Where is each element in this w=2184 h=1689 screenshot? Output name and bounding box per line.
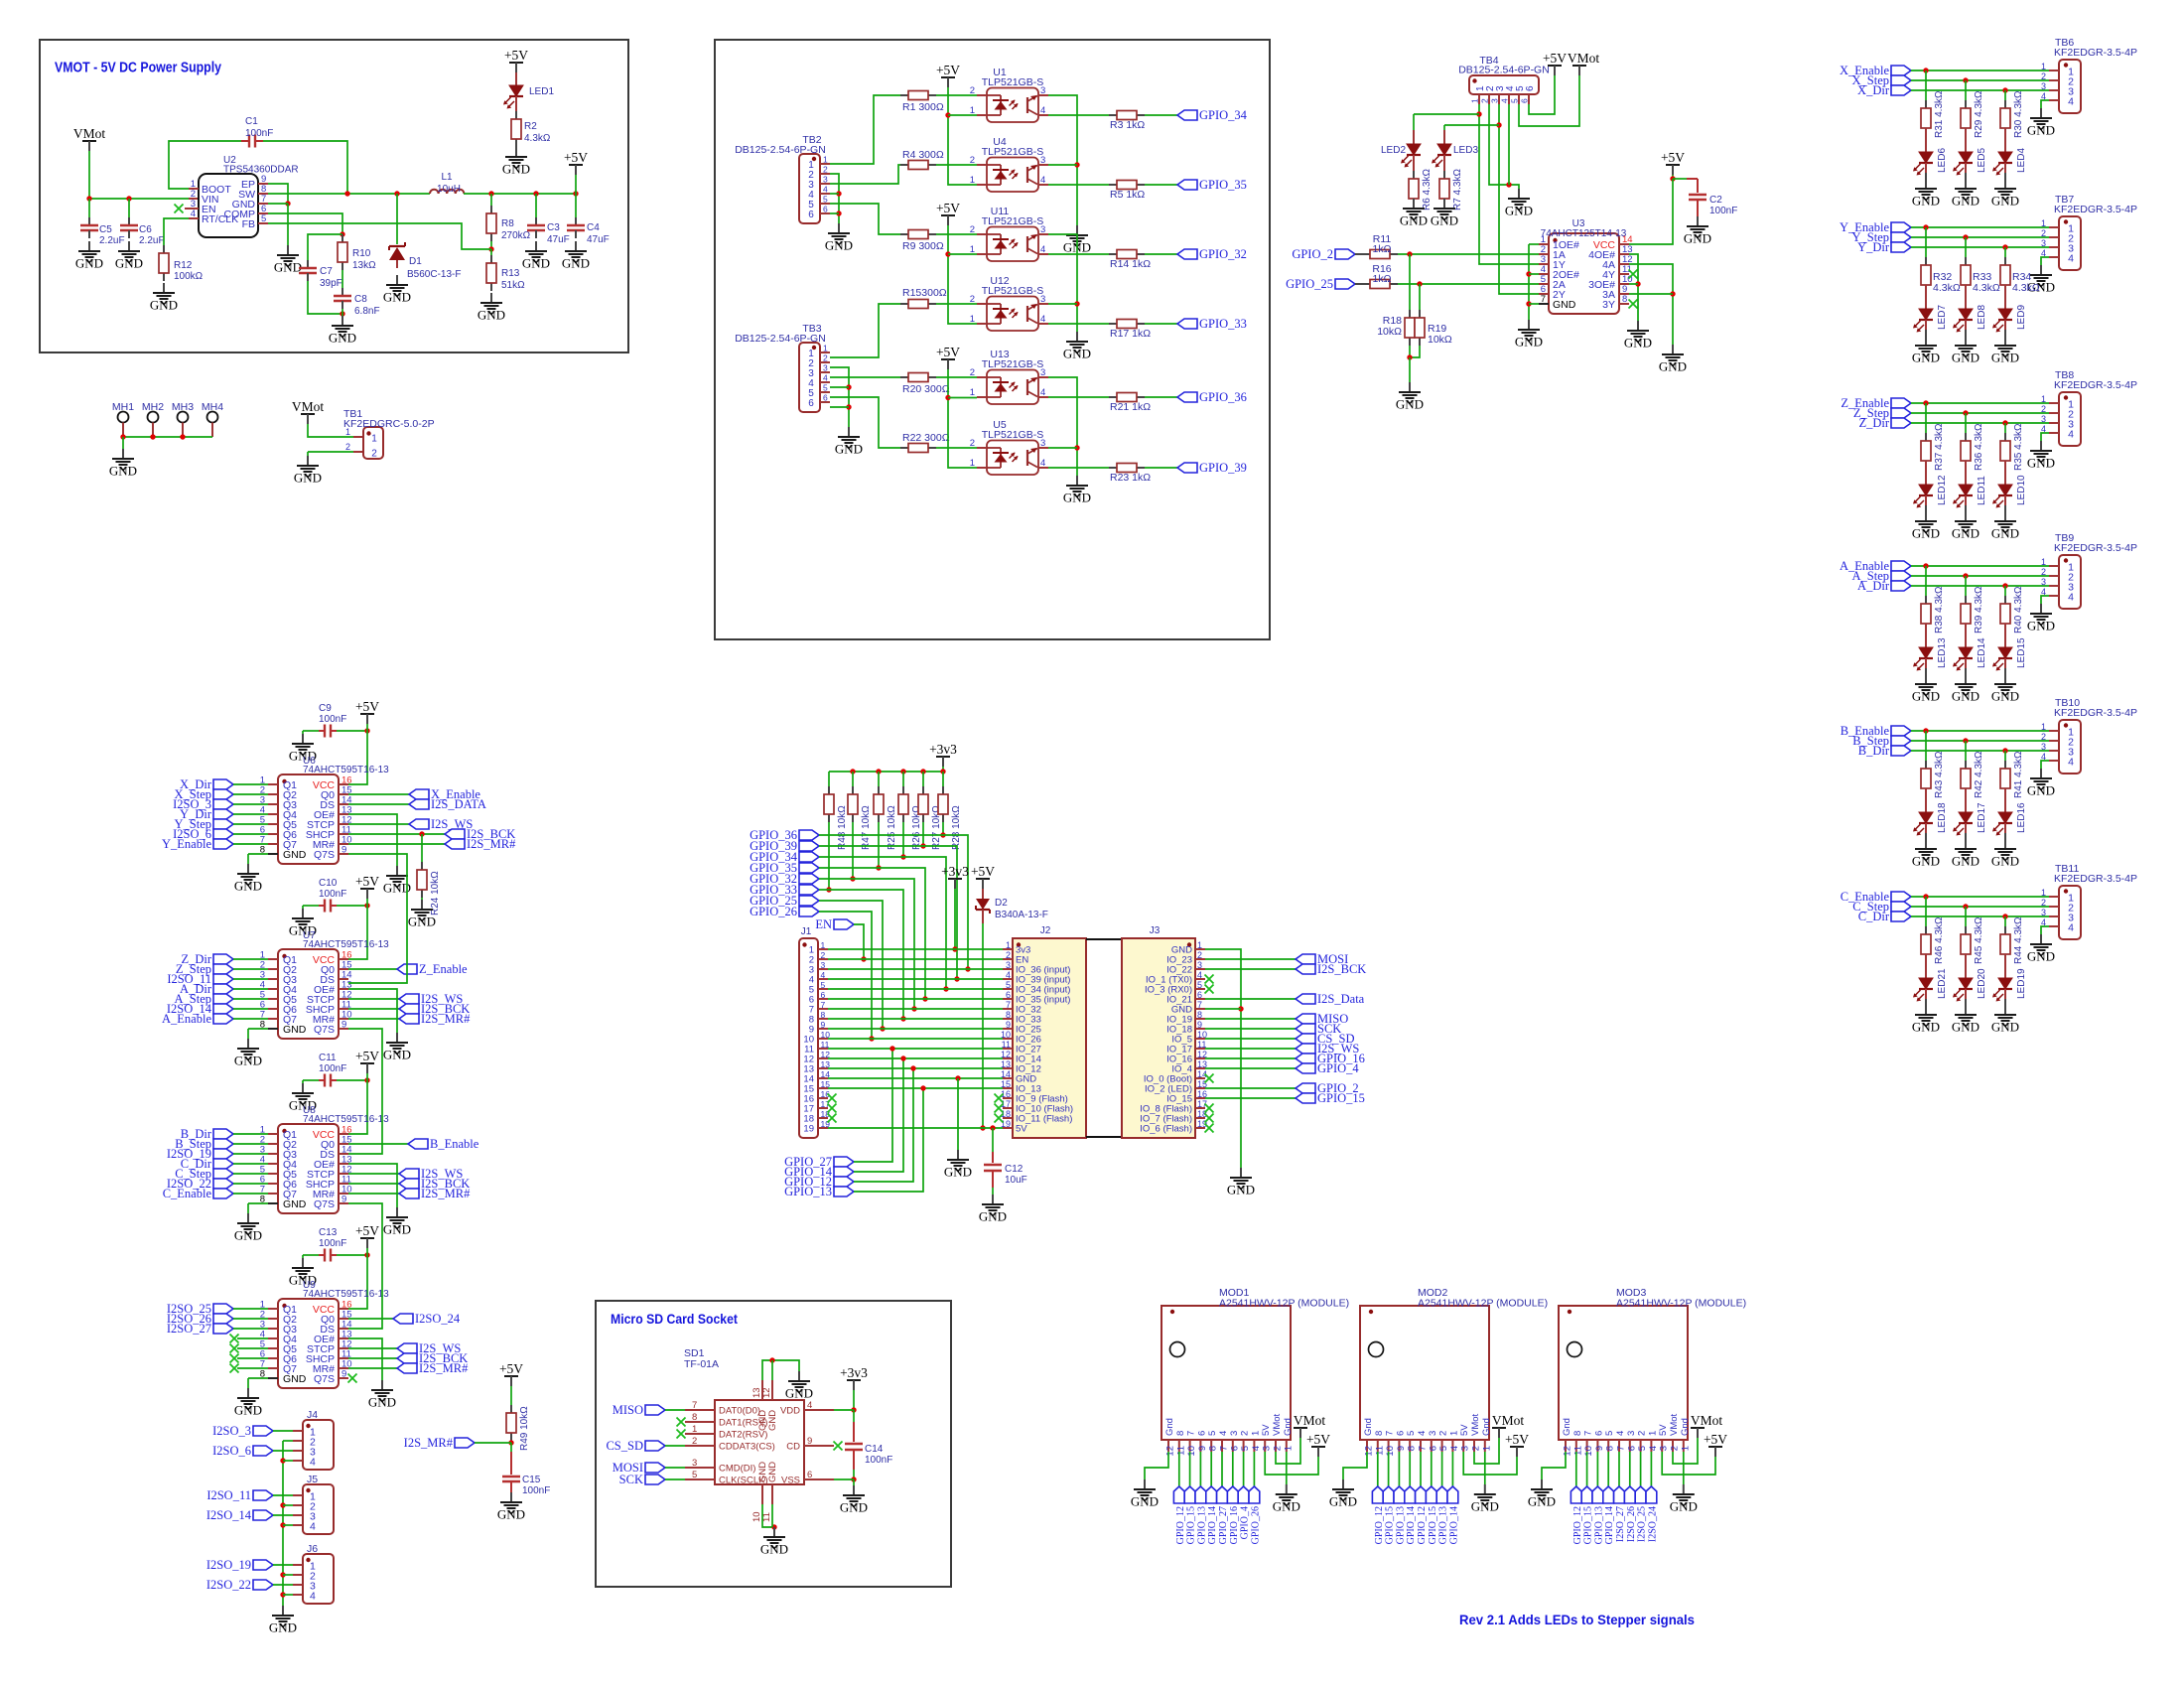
pin 14 VCC of U3 <box>1593 234 1633 251</box>
wire GPIO_15 to flag <box>1586 1452 1588 1486</box>
svg-text:LED5: LED5 <box>1977 148 1987 173</box>
net flag CS_SD <box>1296 1032 1355 1046</box>
svg-text:C6: C6 <box>139 224 152 235</box>
wire C8 to ground <box>341 309 343 316</box>
ground (LED10) <box>1991 511 2019 541</box>
junction <box>943 986 948 991</box>
pin 3 of TB11 <box>2041 908 2074 924</box>
ground (module row14) <box>944 1150 972 1180</box>
net flag GPIO_32 <box>1177 247 1247 261</box>
svg-text:GND: GND <box>1952 854 1979 869</box>
junction <box>952 946 957 951</box>
junction <box>488 246 493 251</box>
pin 9 CD of SD1 <box>786 1436 834 1453</box>
svg-text:3: 3 <box>1659 1446 1670 1451</box>
wire C13 right <box>337 1254 367 1256</box>
wire TB3.1 to R15 <box>830 304 900 357</box>
wire I2SO_26 to flag <box>1629 1452 1631 1486</box>
pin 3 of TB7 <box>2041 238 2074 255</box>
pin 10 3OE# of U3 <box>1588 274 1632 291</box>
svg-text:11: 11 <box>1175 1446 1186 1456</box>
svg-text:TLP521GB-S: TLP521GB-S <box>982 285 1043 297</box>
wire GPIO_14 to flag <box>1451 1452 1453 1486</box>
LED LED6 <box>1913 152 1933 176</box>
svg-text:10: 10 <box>1186 1446 1197 1457</box>
wire rail to R8 <box>490 194 492 206</box>
ground (U8 OE#) <box>383 1207 411 1237</box>
pin 4 of TB4 <box>1500 85 1517 104</box>
LED LED1 <box>503 85 523 109</box>
wire I2S_MR# to node <box>475 1442 511 1444</box>
svg-text:GPIO_25: GPIO_25 <box>1286 277 1333 291</box>
net flag C_Enable <box>1841 890 1911 904</box>
svg-text:GPIO_12: GPIO_12 <box>1417 1506 1428 1544</box>
no-connect X on J3 row <box>1205 1124 1214 1133</box>
junction <box>508 1440 513 1445</box>
pin lead LED11 cathode <box>1965 495 1967 505</box>
ground (C8) <box>329 316 356 346</box>
svg-text:KF2EDGR-3.5-4P: KF2EDGR-3.5-4P <box>2054 542 2137 554</box>
pin 6 of TB4 <box>1520 85 1537 104</box>
svg-text:51kΩ: 51kΩ <box>501 280 525 291</box>
wire I2SO_11 <box>273 1494 293 1496</box>
net flag GPIO_32 <box>750 872 819 886</box>
pin 13 OE# of U8 <box>314 1155 352 1172</box>
svg-text:3: 3 <box>2041 908 2046 917</box>
svg-text:GPIO_14: GPIO_14 <box>1448 1506 1459 1544</box>
svg-text:R5 1kΩ: R5 1kΩ <box>1110 189 1145 201</box>
wire Y_Step <box>1911 236 2049 238</box>
pin 14 DS of U8 <box>320 1145 351 1162</box>
capacitor C5 <box>80 217 98 238</box>
junction <box>1963 234 1968 239</box>
pin 14 of J1 <box>803 1069 830 1085</box>
pin 11 SHCP of U7 <box>306 1000 351 1017</box>
lead <box>2004 173 2006 179</box>
section box: optocoupler inputs <box>715 40 1270 639</box>
wire to LED3 <box>1444 124 1499 126</box>
svg-text:8: 8 <box>1175 1431 1186 1436</box>
pin 7 GND of U2 <box>232 194 268 211</box>
pin 11 SHCP of U6 <box>306 825 351 842</box>
power flag +5V (opto rail 1) <box>936 63 960 87</box>
pin lead U2 EN <box>185 208 199 210</box>
pin 4 1 of MOD2 <box>1448 1431 1460 1452</box>
net flag C_Step <box>175 1167 233 1181</box>
capacitor C15 <box>502 1452 520 1492</box>
no-connect X on U2 EN <box>175 205 184 213</box>
svg-text:KF2EDGR-3.5-4P: KF2EDGR-3.5-4P <box>2054 204 2137 215</box>
resistor R29 <box>1961 100 1971 136</box>
power flag +5V (opto rail 3) <box>936 345 960 369</box>
pin lead D2 anode <box>982 889 984 899</box>
wire X_Step <box>1911 79 2049 81</box>
svg-text:2: 2 <box>2041 228 2046 238</box>
ground (U6) <box>234 864 262 894</box>
ground (MH) <box>109 449 137 479</box>
mounting hole MH3 <box>172 401 194 437</box>
wire GPIO_13 up to module <box>854 1088 923 1192</box>
svg-text:8: 8 <box>692 1412 697 1423</box>
svg-text:4: 4 <box>1040 105 1045 116</box>
wire GND pin8 <box>248 1377 268 1379</box>
wire A_Dir <box>1911 585 2049 587</box>
pin 11 of J1 <box>804 1040 829 1056</box>
no-connect X on SD1 DAT2 <box>677 1430 686 1439</box>
svg-text:+5V: +5V <box>1543 51 1567 66</box>
net flag MISO <box>1296 1012 1348 1026</box>
svg-text:6: 6 <box>1197 990 1202 1000</box>
ground (TB10.4) <box>2027 769 2055 798</box>
junction <box>2002 583 2007 588</box>
svg-text:GND: GND <box>840 1500 868 1515</box>
IC U8 74AHCT595T16-13 body <box>278 1124 339 1213</box>
power flag VMot (PSU input) <box>73 126 106 151</box>
wire NC stub <box>237 1357 268 1359</box>
LED LED14 <box>1953 647 1973 671</box>
wire OE# to ground <box>348 1338 382 1380</box>
wire R18 drop <box>1409 254 1411 310</box>
svg-text:GND: GND <box>979 1209 1007 1224</box>
net flag GPIO_35 <box>1177 178 1247 192</box>
net flag GPIO_15 <box>1426 1486 1436 1503</box>
pin 2 VIN of U2 <box>191 189 219 206</box>
net flag B_Enable <box>1841 724 1911 738</box>
pin 7 of J1 <box>809 1000 828 1016</box>
wire I2SO_27 <box>233 1328 268 1330</box>
pin 1 Q1 of U7 <box>260 950 297 967</box>
module connecting outline <box>1086 939 1122 1137</box>
svg-text:5: 5 <box>1637 1446 1648 1451</box>
pin 1 of TB6 <box>2041 62 2074 78</box>
ground (C3) <box>522 241 550 271</box>
wire +5V flag to rail <box>575 175 577 194</box>
svg-text:GND: GND <box>1991 351 2019 365</box>
pin 16 VCC of U7 <box>313 950 352 967</box>
pin 2 of TB4 <box>1480 85 1497 104</box>
wire pin8 drop <box>247 854 249 864</box>
wire GPIO_14 up to module <box>854 1058 903 1172</box>
pin 2 1A of U3 <box>1539 244 1566 261</box>
svg-text:GND: GND <box>767 1462 778 1482</box>
wire R14 to flag <box>1145 253 1177 255</box>
svg-text:LED2: LED2 <box>1381 145 1406 156</box>
capacitor C10 <box>319 900 337 913</box>
svg-text:3: 3 <box>821 960 826 970</box>
power flag +5V (MOD2) <box>1505 1432 1529 1457</box>
pin 3 of J4 <box>293 1447 316 1459</box>
pin 19 of J1 <box>803 1119 830 1135</box>
junction <box>573 191 578 196</box>
ground (TB4) <box>1505 189 1533 218</box>
wire R19 drop <box>1419 284 1421 310</box>
svg-text:Q7S: Q7S <box>314 1373 335 1385</box>
svg-text:GPIO_13: GPIO_13 <box>1593 1506 1604 1544</box>
pin 14 DS of U6 <box>320 795 351 812</box>
svg-text:C3: C3 <box>547 222 560 233</box>
wire GPIO_2 to U3 1A <box>1398 253 1539 255</box>
wire STCP <box>348 1347 397 1349</box>
wire R8 to node <box>490 241 492 249</box>
net flag I2S_WS <box>1296 1042 1359 1056</box>
wire R49 to node <box>510 1441 512 1443</box>
pin 3 5V of MOD2 <box>1459 1424 1471 1452</box>
svg-text:GND: GND <box>234 1054 262 1068</box>
junction <box>954 976 959 981</box>
svg-text:1: 1 <box>2041 394 2046 404</box>
power flag +5V (LED1) <box>504 48 528 72</box>
ground (LED18) <box>1912 839 1940 869</box>
svg-text:6: 6 <box>1520 98 1530 103</box>
svg-text:10: 10 <box>1385 1446 1396 1457</box>
svg-text:4: 4 <box>1251 1446 1262 1451</box>
net flag GPIO_15 <box>1383 1486 1394 1503</box>
mounting hole MH2 <box>142 401 164 437</box>
wire +5V rail 2 <box>948 225 977 324</box>
wire OE# to ground <box>348 1164 397 1207</box>
svg-text:1: 1 <box>823 155 828 165</box>
svg-text:13kΩ: 13kΩ <box>352 260 376 271</box>
junction <box>846 384 851 389</box>
resistor R36 <box>1961 433 1971 469</box>
pin 6 of J1 <box>809 990 828 1006</box>
svg-text:VMot: VMot <box>1691 1413 1723 1428</box>
wire I2SO_6 <box>273 1450 293 1452</box>
svg-text:R47 10kΩ: R47 10kΩ <box>861 805 872 850</box>
pin lead LED2 cathode <box>1413 155 1415 171</box>
power flag +5V (U9) <box>355 1223 379 1248</box>
wire SD pin12 up <box>771 1360 773 1380</box>
resistor R31 <box>1921 100 1931 136</box>
pin 13 OE# of U6 <box>314 805 352 822</box>
svg-text:X_Dir: X_Dir <box>1857 83 1890 97</box>
pin lead LED16 cathode <box>2004 823 2006 833</box>
junction <box>364 1252 369 1257</box>
svg-text:9: 9 <box>341 1369 346 1380</box>
wire C_Step <box>233 1173 268 1175</box>
pin 2 of TB7 <box>2041 228 2074 245</box>
svg-text:GPIO_2: GPIO_2 <box>1292 247 1333 261</box>
resistor R26 <box>898 786 908 822</box>
no-connect X on J2 pin 18 <box>995 1114 1004 1123</box>
wire bus stub <box>283 1524 293 1526</box>
no-connect X on J3 row <box>1205 1104 1214 1113</box>
junction <box>1476 111 1481 116</box>
svg-text:GND: GND <box>234 1403 262 1418</box>
svg-text:9: 9 <box>1006 1020 1011 1030</box>
net flag GPIO_25 <box>1286 277 1355 291</box>
junction <box>1963 77 1968 82</box>
pin lead LED11 <box>1965 461 1967 485</box>
net flag B_Dir <box>1858 744 1911 758</box>
pin 15 of J1 <box>803 1079 830 1095</box>
svg-text:C4: C4 <box>587 222 600 233</box>
pin 6 3 of MOD2 <box>1428 1431 1439 1452</box>
ground (MOD1 pin12) <box>1131 1479 1159 1509</box>
svg-text:100nF: 100nF <box>319 714 346 725</box>
connector J6 <box>303 1554 334 1604</box>
ground (R7) <box>1431 199 1458 228</box>
ground (TB8.4) <box>2027 441 2055 471</box>
wire +5V rail 3 <box>948 369 977 468</box>
pin 4 of TB6 <box>2041 91 2074 108</box>
lead <box>2004 330 2006 336</box>
wire bus stub <box>283 1504 293 1506</box>
pin lead LED12 <box>1925 461 1927 485</box>
svg-text:GND: GND <box>1991 854 2019 869</box>
svg-text:1: 1 <box>821 940 826 950</box>
net flag Z_Dir <box>181 952 233 966</box>
svg-text:5: 5 <box>692 1470 697 1480</box>
svg-text:5: 5 <box>821 980 826 990</box>
svg-text:GND: GND <box>1912 351 1940 365</box>
svg-text:I2S_BCK: I2S_BCK <box>1317 962 1366 976</box>
svg-text:I2SO_26: I2SO_26 <box>1626 1506 1637 1542</box>
LED LED21 <box>1913 978 1933 1002</box>
svg-text:IO_6 (Flash): IO_6 (Flash) <box>1140 1124 1192 1135</box>
wire to ground <box>302 1255 304 1258</box>
svg-text:8: 8 <box>1208 1446 1219 1451</box>
ground (LED15) <box>1991 674 2019 704</box>
wire collector to R21 <box>1048 396 1109 398</box>
pin 1 Q1 of U8 <box>260 1125 297 1142</box>
svg-text:3: 3 <box>1229 1431 1240 1436</box>
wire J1-J2 row 4 <box>828 978 1003 980</box>
junction <box>1963 738 1968 743</box>
wire tap R29 <box>1965 80 1967 100</box>
svg-text:VMot: VMot <box>1669 1413 1680 1436</box>
LED LED8 <box>1953 309 1973 333</box>
pin 3 1Y of U3 <box>1539 254 1566 271</box>
svg-text:GPIO_4: GPIO_4 <box>1317 1061 1359 1075</box>
svg-text:39pF: 39pF <box>320 278 342 289</box>
svg-text:9: 9 <box>1197 1446 1208 1451</box>
ground (J4-J6) <box>269 1606 297 1635</box>
wire Q0 to B_Enable <box>348 1143 408 1145</box>
IC U2 TPS54360DDAR body <box>199 174 258 237</box>
pin lead LED19 cathode <box>2004 989 2006 999</box>
power flag VMot (MOD1) <box>1294 1413 1326 1438</box>
pin 2 VMot of MOD2 <box>1470 1413 1482 1452</box>
pin 3 5V of MOD1 <box>1261 1424 1273 1452</box>
net flag GPIO_14 <box>1603 1486 1614 1503</box>
svg-text:I2S_MR#: I2S_MR# <box>419 1361 469 1375</box>
pin 4 of TB8 <box>2041 424 2074 441</box>
svg-text:GND: GND <box>1471 1499 1499 1514</box>
pin 8 5 of MOD1 <box>1207 1431 1219 1452</box>
svg-text:3: 3 <box>1626 1431 1637 1436</box>
svg-text:6: 6 <box>808 398 814 409</box>
svg-text:+5V: +5V <box>936 63 960 77</box>
svg-text:7: 7 <box>1541 294 1546 305</box>
svg-text:C9: C9 <box>319 703 332 714</box>
capacitor C1 <box>241 135 263 148</box>
no-connect X on J3 row <box>1205 1074 1214 1083</box>
junction <box>280 1458 285 1463</box>
net flag A_Enable <box>1840 559 1911 573</box>
junction <box>1526 271 1531 276</box>
junction <box>150 434 155 439</box>
svg-text:A2541HWV-12P (MODULE): A2541HWV-12P (MODULE) <box>1616 1298 1746 1310</box>
capacitor C4 <box>567 217 585 238</box>
wire J3 GND bus <box>1205 949 1241 1168</box>
junction <box>850 876 855 881</box>
svg-text:GND: GND <box>383 1222 411 1237</box>
wire collector to R23 <box>1048 467 1109 469</box>
wire tap R39 <box>1965 576 1967 596</box>
wire collector to R5 <box>1048 184 1109 186</box>
wire R23 to flag <box>1145 467 1177 469</box>
pin 16 VCC of U6 <box>313 775 352 792</box>
pin lead TB1 pin1 <box>353 436 363 438</box>
svg-text:100nF: 100nF <box>245 128 273 139</box>
wire D2 to 5V row <box>982 923 984 1128</box>
svg-text:12: 12 <box>1563 1446 1573 1457</box>
junction <box>846 404 851 409</box>
pin 2 of TB8 <box>2041 404 2074 421</box>
svg-text:CMD(DI): CMD(DI) <box>719 1464 755 1475</box>
ground (R2) <box>502 147 530 177</box>
wire C11 left <box>303 1079 319 1081</box>
svg-text:I2SO_11: I2SO_11 <box>206 1488 251 1502</box>
wire CS_SD <box>665 1445 685 1447</box>
wire SD pin11 down <box>771 1504 773 1527</box>
svg-text:CD: CD <box>786 1442 800 1453</box>
pin 2 of TB11 <box>2041 898 2074 915</box>
svg-text:GND: GND <box>150 298 178 313</box>
svg-text:LED15: LED15 <box>2016 637 2027 668</box>
junction <box>1670 176 1675 181</box>
ground (R13) <box>478 293 505 323</box>
pin 1 DAT2(RSV) of SD1 <box>685 1424 767 1441</box>
diode D1 B560C-13-F <box>389 242 405 268</box>
wire node to R13 <box>490 249 492 255</box>
svg-text:R35 4.3kΩ: R35 4.3kΩ <box>2013 423 2024 471</box>
wire TB9.4 to ground <box>2041 596 2049 604</box>
net flag GPIO_15 <box>1581 1486 1592 1503</box>
wire STCP <box>348 998 399 1000</box>
pin lead LED7 cathode <box>1925 320 1927 330</box>
pin 12 STCP of U6 <box>307 815 352 832</box>
pin 4 of J4 <box>293 1457 316 1469</box>
svg-text:11: 11 <box>1197 1040 1206 1050</box>
svg-text:GPIO_14: GPIO_14 <box>1406 1506 1417 1544</box>
svg-text:GPIO_13: GPIO_13 <box>1438 1506 1449 1544</box>
wire A_Step <box>233 998 268 1000</box>
wire I2SO_19 <box>273 1564 293 1566</box>
wire tap R45 <box>1965 907 1967 926</box>
capacitor C7 <box>299 260 317 281</box>
wire I2SO_24 to flag <box>1650 1452 1652 1486</box>
svg-text:FB: FB <box>242 218 255 230</box>
svg-text:7: 7 <box>1006 1000 1011 1010</box>
pin lead LED13 cathode <box>1925 658 1927 668</box>
svg-text:2: 2 <box>1273 1446 1284 1451</box>
svg-text:KF2EDGR-3.5-4P: KF2EDGR-3.5-4P <box>2054 47 2137 59</box>
pin 2 of TB3 <box>808 353 830 370</box>
net flag C_Dir <box>181 1157 233 1171</box>
junction <box>488 191 493 196</box>
net flag GPIO_13 <box>1436 1486 1447 1503</box>
wire rail to R27 <box>922 772 924 786</box>
wire VDD <box>834 1409 854 1411</box>
svg-text:GPIO_26: GPIO_26 <box>1250 1506 1261 1544</box>
pin 12 STCP of U7 <box>307 990 352 1007</box>
resistor R43 <box>1921 761 1931 796</box>
net flag GPIO_13 <box>1592 1486 1603 1503</box>
wire C10 left <box>303 905 319 907</box>
wire TB3.3 to R20 <box>830 376 900 378</box>
